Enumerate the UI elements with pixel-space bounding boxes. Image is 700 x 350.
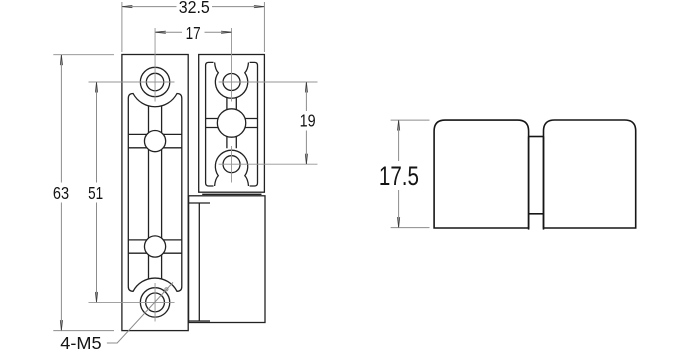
lower plate bottom tick — [189, 320, 210, 322]
63 top extension line — [53, 54, 114, 56]
17 dimension line — [155, 31, 232, 33]
lower plate top tick — [189, 202, 210, 204]
arrow 17.5 top — [398, 120, 400, 130]
17.5 top extension line — [391, 119, 430, 121]
right leaf upper stem — [227, 98, 236, 110]
right leaf lower stem — [227, 136, 236, 148]
left leaf rib 1 — [128, 134, 182, 147]
side view pin top connector — [529, 136, 544, 138]
left leaf top hole — [140, 67, 169, 96]
svg-text:17.5: 17.5 — [379, 161, 419, 191]
17.5 dimension line — [398, 120, 400, 228]
63 bottom extension line — [53, 330, 114, 332]
svg-text:17: 17 — [186, 23, 201, 43]
svg-text:4-M5: 4-M5 — [60, 333, 101, 350]
right leaf bottom horseshoe — [215, 150, 249, 186]
17.5 bottom extension line — [391, 227, 430, 229]
arrow 63 top — [60, 55, 62, 65]
right leaf top hole — [223, 74, 240, 91]
centerline top-right hole vertical / 17 right extension — [231, 28, 233, 102]
centerline top-right hole horizontal / 19 top extension — [219, 81, 318, 83]
19 dimension line — [305, 82, 307, 164]
left leaf boss circle 2 — [144, 236, 165, 257]
arrow 17 right — [221, 31, 231, 33]
32.5 left extension line — [121, 2, 123, 52]
left leaf boss circle 1 — [144, 131, 165, 152]
side view right block — [544, 120, 636, 228]
side view left block — [434, 120, 528, 228]
arrow 19 top — [305, 82, 307, 92]
32.5 dimension line — [122, 6, 265, 8]
left leaf outline — [122, 55, 188, 331]
centerline top-left hole vertical / 17 left extension — [154, 28, 156, 102]
left leaf pocket contour — [128, 94, 182, 292]
arrow 32.5 left — [122, 6, 132, 8]
arrow 51 bottom — [95, 292, 97, 302]
arrow 17 left — [156, 31, 166, 33]
right leaf central boss circle — [217, 109, 245, 137]
left leaf stem (upper segment) — [149, 106, 162, 133]
right leaf outline — [199, 55, 265, 193]
centerline bottom-right hole vertical — [231, 146, 233, 183]
4-M5 leader line — [107, 282, 173, 343]
dimension arrows — [60, 6, 399, 331]
lower plate outline — [189, 196, 265, 323]
left leaf stem (lower segment) — [149, 255, 162, 279]
dimension lines — [61, 7, 398, 343]
right leaf pocket rect (top edge gapped) — [206, 62, 258, 186]
centerline bottom-left hole vertical — [154, 283, 156, 322]
svg-text:63: 63 — [53, 183, 69, 203]
lower plate fold line — [198, 203, 200, 321]
side view pin strip left line — [528, 137, 530, 230]
4-M5 leader dot — [165, 288, 168, 291]
side view pin bottom connector — [529, 213, 544, 215]
centerline top-left hole horizontal / 51 top extension — [89, 81, 175, 83]
right leaf bottom chamfer line — [202, 193, 261, 195]
left leaf rib 2 — [128, 240, 182, 253]
51 dimension line — [96, 82, 98, 302]
centerline bottom-right hole horizontal / 19 bottom extension — [219, 163, 318, 165]
svg-text:19: 19 — [300, 111, 316, 131]
centerlines and extension lines — [89, 28, 318, 322]
side view pin strip right line — [543, 137, 545, 230]
arrow 63 bottom — [60, 320, 62, 330]
arrow 19 bottom — [305, 154, 307, 164]
32.5 right extension line — [263, 2, 265, 52]
right leaf top horseshoe — [215, 62, 249, 98]
arrow 17.5 bottom — [398, 217, 400, 227]
left leaf stem (middle segment) — [149, 150, 162, 238]
right leaf bottom hole — [223, 156, 240, 173]
centerline bottom-left hole horizontal / 51 bottom extension — [89, 301, 175, 303]
63 dimension line — [60, 55, 62, 331]
svg-text:32.5: 32.5 — [179, 0, 210, 17]
arrow 32.5 right — [254, 6, 264, 8]
arrow 51 top — [95, 82, 97, 92]
dimension texts — [53, 0, 316, 350]
right leaf cross stems — [206, 119, 258, 128]
svg-text:51: 51 — [88, 183, 103, 203]
left leaf bottom hole — [140, 288, 169, 317]
